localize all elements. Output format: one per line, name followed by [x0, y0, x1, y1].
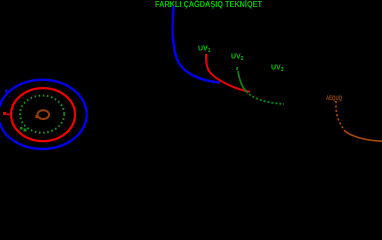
svg-text:FARKLI ÇAĞDAŞIQ TEKNİQET: FARKLI ÇAĞDAŞIQ TEKNİQET	[155, 0, 262, 9]
svg-text:a: a	[5, 89, 8, 95]
svg-text:AEQUQ: AEQUQ	[326, 96, 342, 102]
